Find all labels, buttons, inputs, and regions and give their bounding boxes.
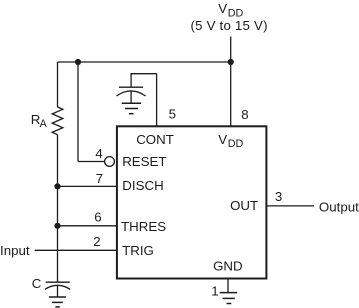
svg-text:DD: DD <box>228 138 244 150</box>
ground bypass bar1 <box>122 102 142 104</box>
svg-text:8: 8 <box>241 107 248 122</box>
ground pin1 bar2 <box>223 297 235 299</box>
svg-text:2: 2 <box>93 234 100 249</box>
svg-text:6: 6 <box>94 210 101 225</box>
net VDD label <box>218 1 243 20</box>
svg-text:(5 V to 15 V): (5 V to 15 V) <box>191 18 268 33</box>
bypass capacitor top plate <box>119 86 143 88</box>
svg-text:5: 5 <box>169 107 176 122</box>
svg-text:A: A <box>40 118 48 130</box>
svg-text:TRIG: TRIG <box>122 243 154 258</box>
svg-text:OUT: OUT <box>230 198 258 213</box>
ground bypass bar3 <box>129 113 134 115</box>
junction dot at THRES <box>54 223 60 229</box>
capacitor C top plate <box>46 281 70 283</box>
wire GND pin 1 <box>227 279 229 293</box>
svg-text:CONT: CONT <box>136 132 174 147</box>
svg-text:THRES: THRES <box>121 219 166 234</box>
wire THRES pin 6 <box>58 225 117 227</box>
bypass capacitor stem <box>130 92 132 104</box>
ground pin1 bar3 <box>227 303 232 305</box>
svg-text:V: V <box>218 1 227 16</box>
svg-text:4: 4 <box>95 146 102 161</box>
junction dot at RESET branch <box>75 59 81 65</box>
junction dot at VDD stem <box>228 59 234 65</box>
wire pin 8 VDD <box>230 62 232 126</box>
svg-text:7: 7 <box>96 171 103 186</box>
ground bypass bar2 <box>125 108 138 110</box>
capacitor C stem <box>57 286 59 297</box>
resistor RA <box>52 107 63 135</box>
wire RESET branch horizontal <box>78 161 105 163</box>
ground C bar3 <box>55 306 59 308</box>
wire left rail upper <box>57 62 59 107</box>
bypass capacitor bottom plate arc <box>117 91 146 96</box>
svg-text:3: 3 <box>275 189 282 204</box>
ground pin1 bar1 <box>220 292 238 294</box>
wire DISCH pin 7 <box>58 185 117 187</box>
svg-text:Input: Input <box>0 243 30 258</box>
wire TRIG pin 2 <box>35 249 117 251</box>
wire RESET branch vertical <box>77 62 79 162</box>
wire OUT pin 3 <box>266 205 314 207</box>
ground C bar1 <box>49 296 66 298</box>
op IC 555 box <box>117 126 267 278</box>
svg-text:DISCH: DISCH <box>122 178 163 193</box>
svg-text:V: V <box>218 132 227 147</box>
wire VDD stem <box>230 37 232 63</box>
capacitor C bottom plate arc <box>45 285 70 289</box>
wire bypass cap drop <box>130 73 132 87</box>
wire CONT pin 5 stem <box>156 74 158 127</box>
svg-text:GND: GND <box>213 258 243 273</box>
wire left rail lower <box>57 135 59 282</box>
junction dot at DISCH <box>54 183 60 189</box>
svg-text:C: C <box>32 276 42 291</box>
svg-text:1: 1 <box>211 284 218 299</box>
wire CONT to bypass cap <box>131 73 157 75</box>
svg-text:RESET: RESET <box>122 154 166 169</box>
label RA <box>31 112 48 130</box>
wire VDD top rail <box>58 61 231 63</box>
svg-text:Output: Output <box>319 200 359 215</box>
ground C bar2 <box>52 301 63 303</box>
pin label VDD <box>218 132 243 150</box>
RESET inversion bubble <box>105 157 115 167</box>
